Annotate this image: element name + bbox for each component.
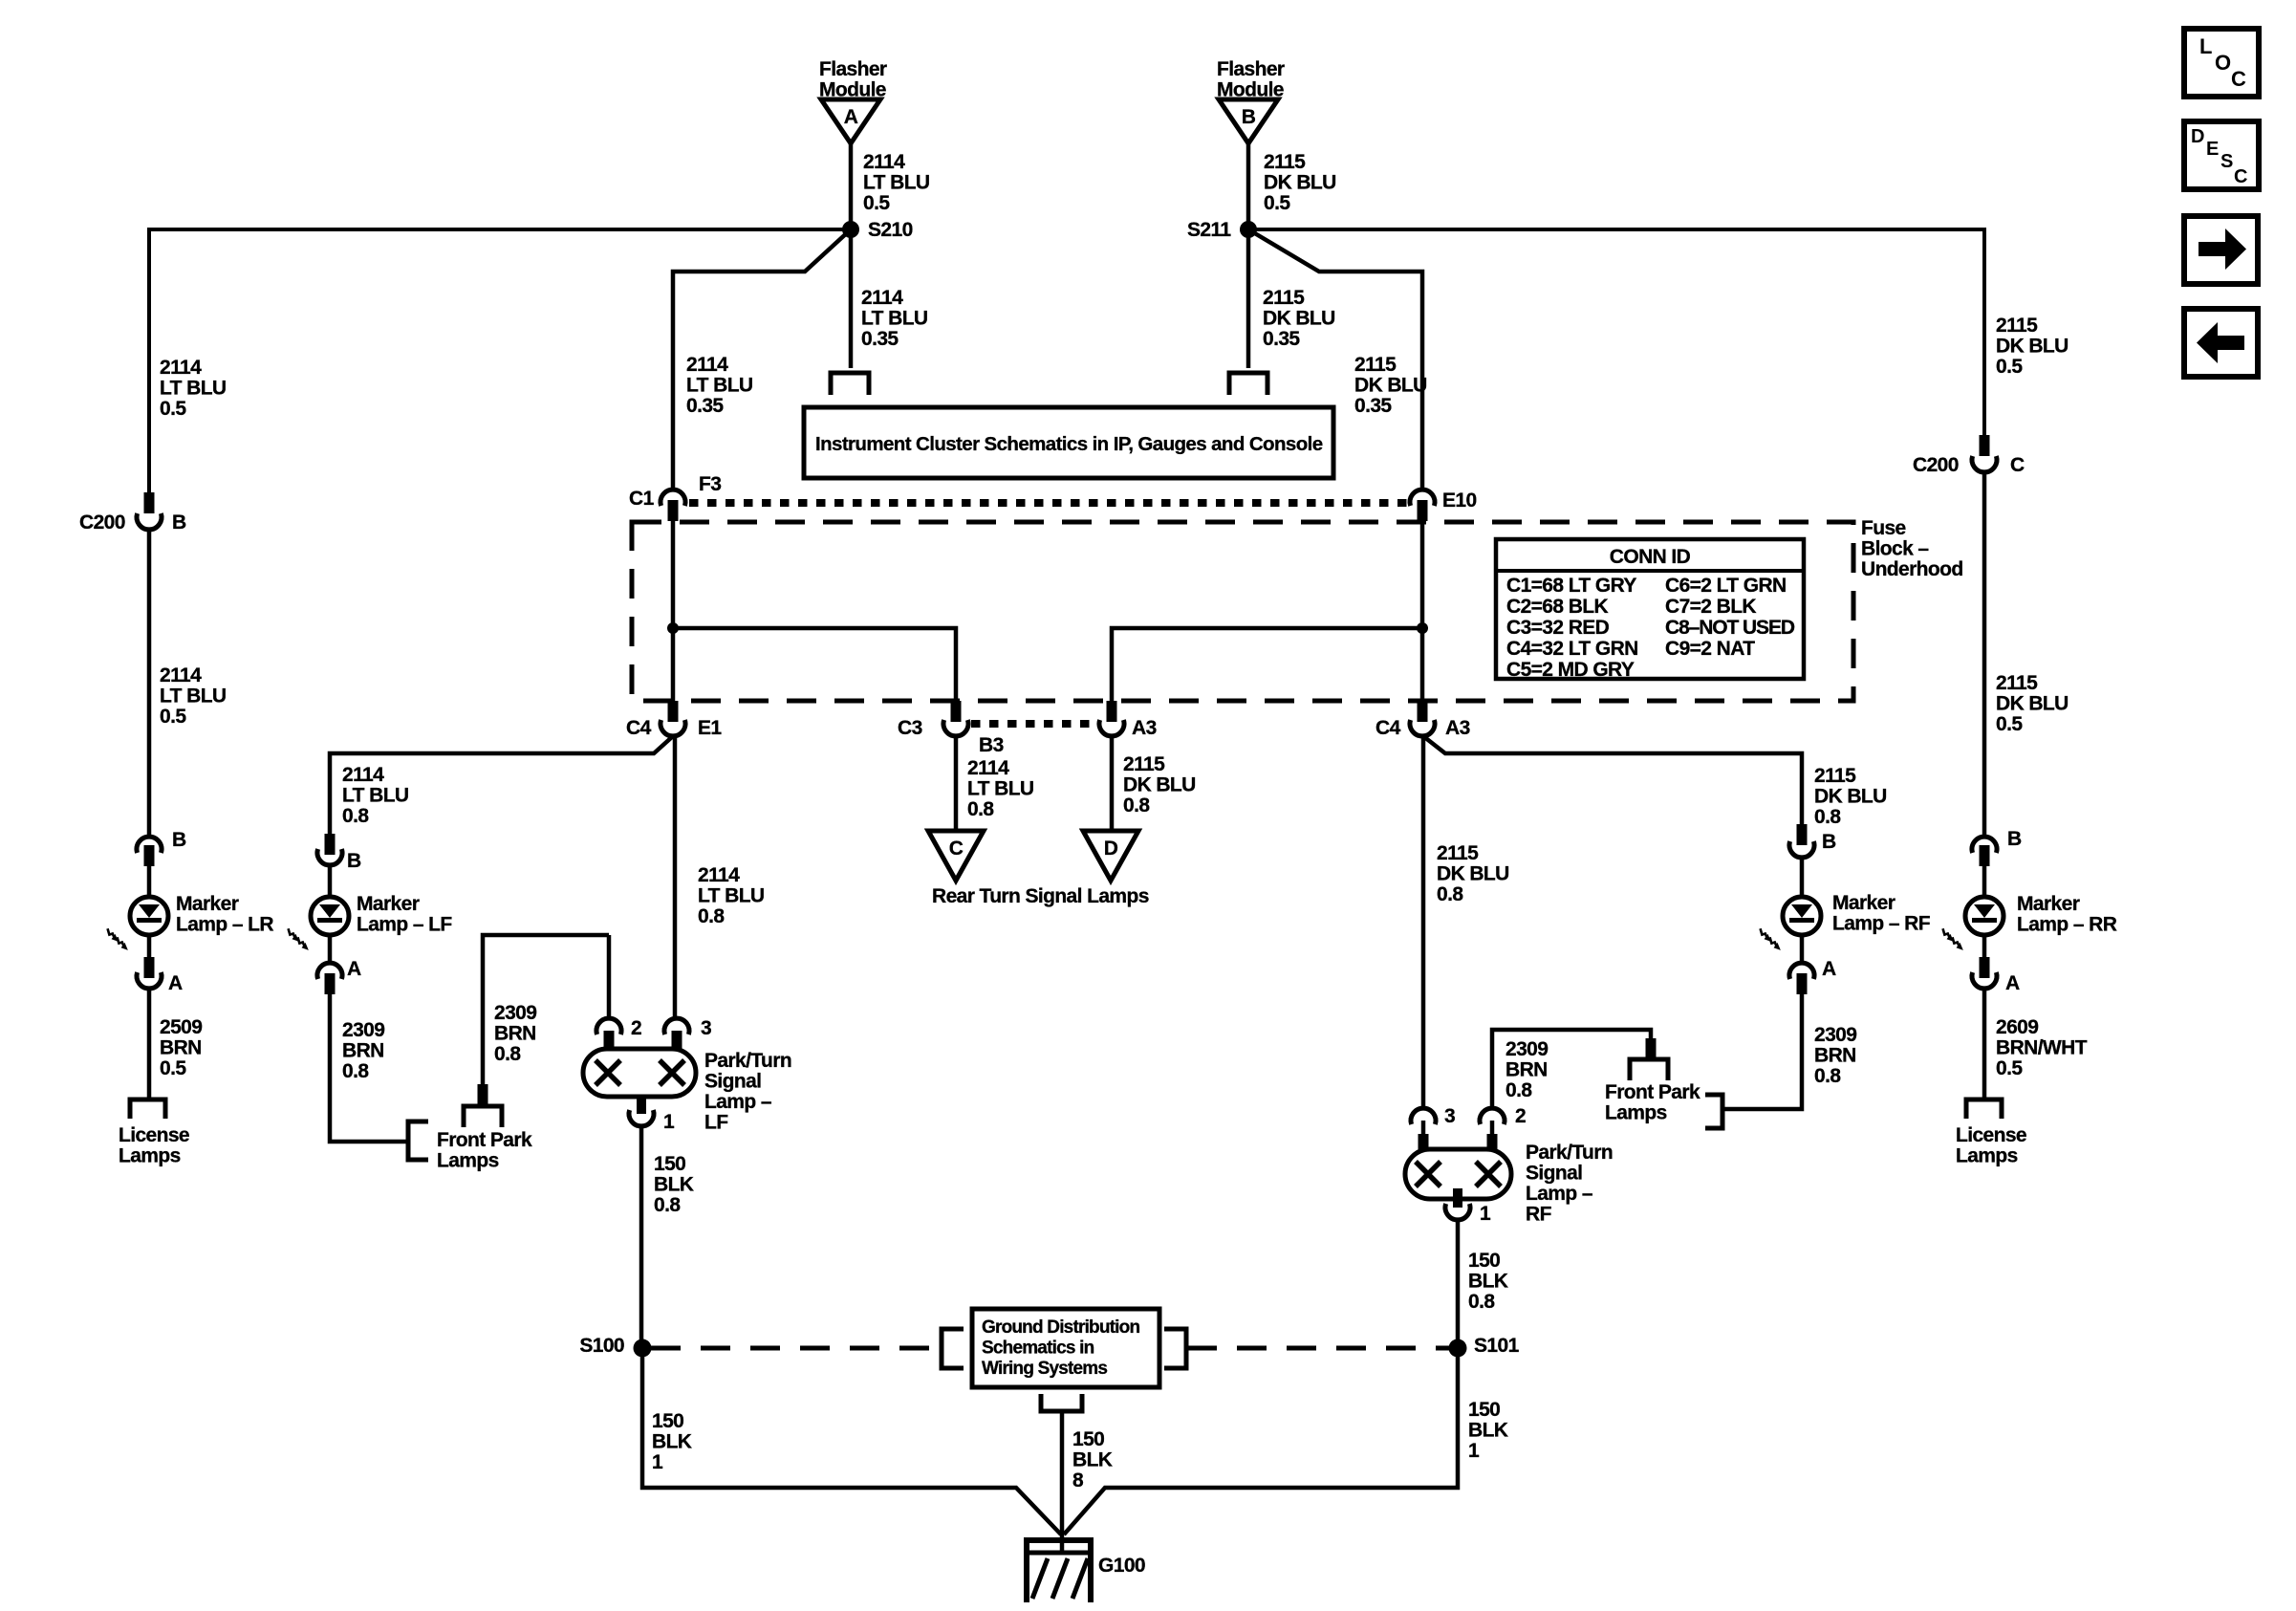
connector C200 pin C socket xyxy=(1972,456,1997,472)
connector marker lamp LR pin A terminal xyxy=(144,957,155,978)
connector marker lamp LR pin A socket xyxy=(137,972,162,989)
svg-text:Lamps: Lamps xyxy=(1605,1102,1667,1124)
svg-text:0.5: 0.5 xyxy=(1996,356,2023,378)
svg-text:BLK: BLK xyxy=(652,1431,692,1453)
svg-text:D: D xyxy=(2191,126,2204,147)
svg-text:0.8: 0.8 xyxy=(654,1194,681,1216)
fuse block - underhood dashed outline xyxy=(632,522,1853,701)
svg-text:1: 1 xyxy=(1468,1440,1480,1462)
svg-text:0.35: 0.35 xyxy=(1263,328,1300,350)
svg-text:LT BLU: LT BLU xyxy=(863,172,930,194)
connector C1 (F3) socket xyxy=(661,490,685,506)
svg-text:Marker: Marker xyxy=(357,893,420,915)
front park lamps top bracket (left) xyxy=(464,1106,502,1127)
connector park/turn RF pin 2 socket xyxy=(1480,1108,1505,1124)
connector marker lamp LR pin B terminal xyxy=(144,845,155,866)
dashed wire S100 to ground distribution xyxy=(651,1346,941,1351)
lamp: Marker Lamp - RR xyxy=(1939,897,2004,952)
svg-text:LT BLU: LT BLU xyxy=(342,785,409,807)
instrument cluster lead bracket (left) xyxy=(831,373,869,395)
svg-text:150: 150 xyxy=(652,1410,683,1432)
dotted harness line B3 to A3 xyxy=(971,720,1096,728)
svg-text:A: A xyxy=(1822,958,1836,980)
svg-text:2309: 2309 xyxy=(342,1019,384,1041)
svg-text:DK BLU: DK BLU xyxy=(1264,172,1336,194)
connector C200 pin B socket xyxy=(137,513,162,530)
svg-text:A: A xyxy=(844,106,858,128)
wire to marker RF xyxy=(1800,858,1805,899)
svg-text:BRN: BRN xyxy=(342,1040,384,1062)
svg-text:S100: S100 xyxy=(579,1335,624,1357)
svg-text:C1: C1 xyxy=(629,488,655,510)
ground distribution bottom bracket xyxy=(1041,1394,1082,1411)
svg-text:DK BLU: DK BLU xyxy=(1996,693,2069,715)
svg-text:Lamp –: Lamp – xyxy=(1526,1183,1593,1205)
fuse block internal wire (right vertical) xyxy=(1420,521,1425,701)
svg-text:2115: 2115 xyxy=(1996,315,2038,337)
wire from marker RF xyxy=(1800,935,1805,964)
wire 2115 DK BLU 0.8 A3 to rear turn triangle D xyxy=(1110,737,1115,831)
svg-text:0.8: 0.8 xyxy=(967,798,994,820)
svg-text:2114: 2114 xyxy=(861,287,903,309)
svg-text:2115: 2115 xyxy=(1123,753,1165,775)
nav icon box DESC xyxy=(2184,121,2259,189)
svg-text:B: B xyxy=(172,829,186,851)
wire 2309 BRN marker RF to front park lamps xyxy=(1724,994,1802,1109)
svg-text:0.35: 0.35 xyxy=(861,328,899,350)
wire 2115 DK BLU from Flasher B through S211 xyxy=(1246,143,1251,368)
svg-text:BLK: BLK xyxy=(1468,1420,1508,1442)
svg-text:B3: B3 xyxy=(979,734,1004,756)
front park lamps terminal (right) xyxy=(1646,1038,1657,1057)
svg-text:2114: 2114 xyxy=(967,757,1009,779)
svg-text:Lamps: Lamps xyxy=(119,1145,181,1167)
wire 150 BLK 1 S100 to G100 xyxy=(642,1348,1061,1535)
nav icon box LOC xyxy=(2184,29,2259,97)
svg-text:C: C xyxy=(949,838,964,860)
svg-text:2309: 2309 xyxy=(1814,1024,1856,1046)
wire 2114 LT BLU 0.35 S210 to C1 xyxy=(673,229,851,490)
svg-text:0.8: 0.8 xyxy=(1505,1079,1532,1101)
instrument cluster lead bracket (right) xyxy=(1229,373,1267,395)
svg-text:RF: RF xyxy=(1526,1204,1552,1226)
svg-text:C8–NOT USED: C8–NOT USED xyxy=(1665,617,1795,639)
connector park/turn RF pin 1 socket xyxy=(1445,1204,1470,1220)
front park lamps terminal (left) xyxy=(478,1084,488,1105)
svg-text:0.8: 0.8 xyxy=(1814,806,1841,828)
wire 2115 DK BLU 0.8 C4/A3 to park/turn RF pin 3 xyxy=(1421,736,1426,1109)
svg-text:1: 1 xyxy=(663,1111,675,1133)
connector park/turn LF pin 2 socket xyxy=(596,1018,621,1034)
svg-text:LT BLU: LT BLU xyxy=(686,375,753,397)
svg-text:2114: 2114 xyxy=(160,357,202,379)
svg-text:2115: 2115 xyxy=(1264,151,1306,173)
svg-text:0.5: 0.5 xyxy=(863,192,890,214)
svg-text:S210: S210 xyxy=(868,219,913,241)
svg-text:0.8: 0.8 xyxy=(342,805,369,827)
connector marker lamp RR pin A socket xyxy=(1972,972,1997,989)
svg-text:BLK: BLK xyxy=(654,1174,694,1196)
license lamps lead bracket (left) xyxy=(130,1099,165,1119)
connector C3/B3 socket xyxy=(943,720,968,736)
wire 2114 LT BLU 0.5 C200 to marker LR xyxy=(147,531,152,838)
fuse block internal wire to C3 xyxy=(673,628,956,701)
svg-text:LT BLU: LT BLU xyxy=(698,885,765,907)
connector E10 terminal xyxy=(1418,500,1428,521)
svg-text:DK BLU: DK BLU xyxy=(1996,336,2069,358)
lamp: Park/Turn Signal Lamp - LF (dual filament bulb) xyxy=(583,1049,696,1097)
svg-text:0.8: 0.8 xyxy=(342,1060,369,1082)
connector A3 terminal xyxy=(1107,701,1117,722)
svg-text:L: L xyxy=(2199,34,2212,58)
svg-text:0.8: 0.8 xyxy=(698,905,725,927)
svg-text:Flasher: Flasher xyxy=(819,58,887,80)
svg-text:C4: C4 xyxy=(1375,717,1401,739)
svg-text:DK BLU: DK BLU xyxy=(1263,308,1335,330)
connector C4/A3 socket xyxy=(1410,720,1435,736)
svg-text:DK BLU: DK BLU xyxy=(1123,774,1196,796)
svg-text:Signal: Signal xyxy=(1526,1163,1582,1185)
license lamps lead bracket (right) xyxy=(1966,1099,2002,1119)
svg-text:Rear Turn Signal Lamps: Rear Turn Signal Lamps xyxy=(932,885,1149,907)
svg-text:B: B xyxy=(1242,106,1256,128)
svg-text:0.5: 0.5 xyxy=(160,1057,186,1079)
connector marker lamp LF pin A terminal xyxy=(325,973,336,994)
nav icon box next (right arrow) xyxy=(2184,216,2258,284)
svg-text:150: 150 xyxy=(1468,1250,1500,1272)
svg-text:2114: 2114 xyxy=(698,864,740,886)
svg-text:A: A xyxy=(168,972,183,994)
svg-text:LT BLU: LT BLU xyxy=(967,778,1034,800)
svg-text:2114: 2114 xyxy=(342,764,384,786)
svg-text:1: 1 xyxy=(1480,1203,1491,1225)
wire 2309 BRN park/turn RF pin 2 to front park lamps xyxy=(1492,1030,1651,1109)
svg-text:BRN: BRN xyxy=(1814,1045,1856,1067)
CONN ID table xyxy=(1496,539,1804,681)
svg-text:Lamp – RR: Lamp – RR xyxy=(2017,914,2117,936)
svg-text:0.8: 0.8 xyxy=(1123,795,1150,816)
svg-text:A3: A3 xyxy=(1445,717,1470,739)
connector marker lamp RF pin B terminal xyxy=(1797,824,1808,845)
connector marker lamp LF pin B terminal xyxy=(325,834,336,855)
svg-text:G100: G100 xyxy=(1098,1555,1145,1577)
svg-text:Underhood: Underhood xyxy=(1861,558,1963,580)
svg-text:Front Park: Front Park xyxy=(437,1129,532,1151)
svg-text:C: C xyxy=(2234,166,2247,187)
connector park/turn RF pin 3 terminal xyxy=(1419,1134,1429,1150)
svg-text:Marker: Marker xyxy=(1832,892,1895,914)
svg-text:C5=2 MD GRY: C5=2 MD GRY xyxy=(1506,659,1635,681)
wire 2114 LT BLU 0.8 C3 to rear turn triangle C xyxy=(954,737,959,831)
wire 2114 LT BLU from Flasher A through S210 xyxy=(849,143,854,368)
splice S101 xyxy=(1449,1339,1467,1358)
svg-text:BRN: BRN xyxy=(160,1037,202,1059)
svg-text:Park/Turn: Park/Turn xyxy=(1526,1142,1613,1164)
dotted harness line C1/F3 to E10 xyxy=(689,499,1407,507)
splice S100 xyxy=(634,1339,652,1358)
wire from marker LR xyxy=(147,935,152,959)
svg-text:LT BLU: LT BLU xyxy=(160,686,227,708)
svg-text:C200: C200 xyxy=(1913,454,1959,476)
svg-text:0.5: 0.5 xyxy=(1264,192,1290,214)
connector C4/E1 socket xyxy=(661,720,685,736)
svg-text:O: O xyxy=(2215,51,2231,75)
flasher module A off-page triangle xyxy=(819,58,887,143)
svg-text:Lamp – LF: Lamp – LF xyxy=(357,914,452,936)
svg-text:2115: 2115 xyxy=(1263,287,1305,309)
svg-text:Front Park: Front Park xyxy=(1605,1081,1700,1103)
svg-text:1: 1 xyxy=(652,1451,663,1473)
svg-text:A: A xyxy=(347,958,361,980)
fuse block junction (left) xyxy=(667,622,679,634)
svg-text:Lamps: Lamps xyxy=(1956,1145,2018,1167)
svg-text:0.8: 0.8 xyxy=(494,1043,521,1065)
connector C200 pin C terminal xyxy=(1980,435,1990,456)
ground distribution bracket (left) xyxy=(942,1329,964,1368)
svg-text:C6=2 LT GRN: C6=2 LT GRN xyxy=(1665,575,1787,597)
wire 150 BLK 8 to G100 xyxy=(1060,1413,1065,1552)
svg-text:B: B xyxy=(1822,831,1836,853)
svg-text:B: B xyxy=(347,850,361,872)
svg-text:Signal: Signal xyxy=(704,1071,761,1093)
svg-text:0.8: 0.8 xyxy=(1468,1291,1495,1313)
svg-text:0.5: 0.5 xyxy=(1996,713,2023,735)
svg-text:2115: 2115 xyxy=(1996,672,2038,694)
flasher module B off-page triangle xyxy=(1217,58,1285,143)
off-page triangle C (rear turn signal) xyxy=(928,831,984,881)
wire 2115 DK BLU 0.35 S211 to E10 xyxy=(1248,229,1422,490)
svg-text:2114: 2114 xyxy=(863,151,905,173)
svg-text:C200: C200 xyxy=(79,512,125,533)
wire 2114 LT BLU 0.8 E1 to park/turn LF pin 3 xyxy=(673,736,675,1019)
svg-text:2115: 2115 xyxy=(1437,842,1479,864)
svg-text:Wiring Systems: Wiring Systems xyxy=(982,1359,1107,1379)
svg-text:S: S xyxy=(2220,151,2233,172)
connector C200 pin B terminal xyxy=(144,492,155,513)
connector E10 socket xyxy=(1410,490,1435,506)
svg-text:Marker: Marker xyxy=(2017,893,2080,915)
connector A3 socket xyxy=(1099,720,1124,736)
svg-text:BLK: BLK xyxy=(1072,1449,1113,1471)
front park lamps top bracket (right) xyxy=(1630,1059,1668,1080)
fuse block internal wire to A3 xyxy=(1112,628,1422,701)
svg-text:C2=68 BLK: C2=68 BLK xyxy=(1506,596,1608,618)
connector marker lamp LR pin B socket xyxy=(137,837,162,853)
svg-text:F3: F3 xyxy=(699,473,721,495)
svg-text:2114: 2114 xyxy=(686,354,728,376)
svg-text:Flasher: Flasher xyxy=(1217,58,1285,80)
svg-text:E10: E10 xyxy=(1442,490,1477,512)
svg-text:License: License xyxy=(119,1124,189,1146)
connector marker lamp RF pin A terminal xyxy=(1797,973,1808,994)
svg-text:DK BLU: DK BLU xyxy=(1437,863,1509,885)
svg-text:LT BLU: LT BLU xyxy=(861,308,928,330)
svg-text:C1=68 LT GRY: C1=68 LT GRY xyxy=(1506,575,1636,597)
svg-text:BRN/WHT: BRN/WHT xyxy=(1996,1037,2088,1059)
svg-text:Instrument Cluster Schematics: Instrument Cluster Schematics in IP, Gau… xyxy=(815,433,1323,455)
svg-text:S101: S101 xyxy=(1474,1335,1520,1357)
svg-text:0.5: 0.5 xyxy=(160,706,186,728)
svg-text:0.35: 0.35 xyxy=(686,395,724,417)
svg-text:BLK: BLK xyxy=(1468,1271,1508,1293)
svg-text:0.5: 0.5 xyxy=(160,398,186,420)
svg-text:Lamp – RF: Lamp – RF xyxy=(1832,913,1931,935)
svg-text:B: B xyxy=(2007,828,2022,850)
svg-text:3: 3 xyxy=(1444,1105,1455,1127)
wire: top-left bus 2114 from S210 to C200 xyxy=(149,229,851,494)
connector C4/A3 terminal xyxy=(1418,701,1428,722)
svg-text:S211: S211 xyxy=(1187,219,1231,241)
connector marker lamp RR pin B socket xyxy=(1972,837,1997,853)
wire to marker RR xyxy=(1982,847,1987,899)
svg-text:Park/Turn: Park/Turn xyxy=(704,1050,791,1072)
wire 2115 DK BLU 0.8 C4/A3 to marker RF xyxy=(1423,736,1802,828)
svg-text:2309: 2309 xyxy=(494,1002,536,1024)
box: Instrument Cluster Schematics in IP, Gauges and Console xyxy=(804,407,1333,478)
svg-text:A3: A3 xyxy=(1132,717,1157,739)
svg-text:License: License xyxy=(1956,1124,2026,1146)
svg-text:2: 2 xyxy=(1515,1105,1526,1127)
svg-text:E1: E1 xyxy=(698,717,722,739)
off-page triangle D (rear turn signal) xyxy=(1083,831,1138,881)
wire 2114 LT BLU 0.8 E1 to marker LF xyxy=(330,736,673,838)
front park lamps side bracket (right) xyxy=(1705,1095,1722,1128)
svg-text:150: 150 xyxy=(654,1153,685,1175)
dashed wire ground distribution to S101 xyxy=(1187,1346,1449,1351)
svg-text:DK BLU: DK BLU xyxy=(1354,375,1427,397)
connector marker lamp RF pin B socket xyxy=(1789,841,1814,858)
svg-text:0.5: 0.5 xyxy=(1996,1057,2023,1079)
svg-text:2115: 2115 xyxy=(1354,354,1397,376)
box: Ground Distribution Schematics in Wiring Systems xyxy=(972,1309,1159,1387)
connector park/turn LF pin 1 terminal xyxy=(637,1095,646,1114)
svg-text:BRN: BRN xyxy=(1505,1059,1548,1081)
svg-text:150: 150 xyxy=(1072,1428,1104,1450)
svg-text:2: 2 xyxy=(631,1017,641,1039)
connector marker lamp RR pin A terminal xyxy=(1980,957,1990,978)
svg-text:C7=2 BLK: C7=2 BLK xyxy=(1665,596,1756,618)
wire 2609 BRN/WHT to license lamps xyxy=(1982,990,1987,1101)
svg-text:DK BLU: DK BLU xyxy=(1814,786,1887,808)
svg-text:BRN: BRN xyxy=(494,1023,536,1045)
svg-text:8: 8 xyxy=(1072,1469,1084,1491)
wire 150 BLK 1 S101 to G100 xyxy=(1064,1348,1458,1535)
lamp: Marker Lamp - LF xyxy=(285,897,349,952)
connector park/turn LF pin 3 terminal xyxy=(672,1031,682,1050)
svg-text:C: C xyxy=(2010,454,2025,476)
wire from marker RR xyxy=(1982,935,1987,959)
lamp: Park/Turn Signal Lamp - RF (dual filament bulb) xyxy=(1405,1149,1511,1199)
wire 2309 BRN park/turn LF pin 2 to front park lamps xyxy=(483,935,609,1086)
svg-text:C3: C3 xyxy=(898,717,922,739)
connector marker lamp LF pin B socket xyxy=(317,849,342,865)
svg-text:Module: Module xyxy=(1217,79,1284,101)
svg-text:2509: 2509 xyxy=(160,1016,202,1038)
svg-text:Ground Distribution: Ground Distribution xyxy=(982,1317,1139,1338)
nav icon box previous (left arrow) xyxy=(2184,309,2258,377)
fuse block junction (right) xyxy=(1417,622,1428,634)
svg-text:2309: 2309 xyxy=(1505,1038,1548,1060)
svg-text:Block –: Block – xyxy=(1861,538,1929,560)
connector marker lamp LF pin A socket xyxy=(317,963,342,979)
connector C3/B3 terminal xyxy=(951,701,962,722)
wire to marker LF xyxy=(328,865,333,899)
wire 2115 DK BLU 0.5 C200 to marker RR xyxy=(1982,473,1987,838)
svg-text:2115: 2115 xyxy=(1814,765,1856,787)
connector C1 (F3) terminal xyxy=(668,500,679,521)
connector park/turn RF pin 2 terminal xyxy=(1487,1134,1498,1150)
wire 2509 BRN to license lamps xyxy=(147,990,152,1101)
svg-text:E: E xyxy=(2206,139,2219,160)
lamp: Marker Lamp - LR xyxy=(104,897,168,952)
wire to marker LR xyxy=(147,847,152,899)
splice S210 xyxy=(842,221,859,238)
wire to park/turn LF pin 2 xyxy=(607,935,612,1019)
svg-text:C9=2 NAT: C9=2 NAT xyxy=(1665,638,1755,660)
svg-text:C4: C4 xyxy=(626,717,652,739)
fuse block internal wire (left vertical) xyxy=(671,521,676,701)
svg-text:C: C xyxy=(2231,67,2246,91)
svg-text:Lamps: Lamps xyxy=(437,1150,499,1172)
wire 150 BLK park/turn RF to S101 xyxy=(1456,1221,1461,1348)
svg-text:Lamp –: Lamp – xyxy=(704,1091,772,1113)
connector park/turn RF pin 3 socket xyxy=(1411,1108,1436,1124)
svg-text:Module: Module xyxy=(819,79,886,101)
connector park/turn RF pin 1 terminal xyxy=(1453,1188,1462,1208)
svg-text:2114: 2114 xyxy=(160,664,202,686)
svg-text:LF: LF xyxy=(704,1112,728,1134)
wire from marker LF xyxy=(328,935,333,964)
wire 150 BLK park/turn LF to S100 xyxy=(639,1127,644,1348)
ground G100 chassis symbol xyxy=(1027,1540,1091,1602)
ground distribution bracket (right) xyxy=(1164,1329,1186,1368)
svg-text:B: B xyxy=(172,512,186,533)
connector park/turn LF pin 1 socket xyxy=(629,1110,654,1126)
svg-text:0.35: 0.35 xyxy=(1354,395,1392,417)
lamp: Marker Lamp - RF xyxy=(1757,897,1821,952)
wire 2309 BRN marker LF to front park lamps xyxy=(330,994,408,1142)
connector marker lamp RR pin B terminal xyxy=(1980,845,1990,866)
connector marker lamp RF pin A socket xyxy=(1789,963,1814,979)
svg-text:0.8: 0.8 xyxy=(1814,1065,1841,1087)
svg-text:Fuse: Fuse xyxy=(1861,517,1906,539)
svg-text:A: A xyxy=(2005,972,2020,994)
svg-text:Marker: Marker xyxy=(176,893,239,915)
svg-text:2609: 2609 xyxy=(1996,1016,2038,1038)
svg-text:CONN ID: CONN ID xyxy=(1610,546,1691,568)
svg-text:0.8: 0.8 xyxy=(1437,883,1463,905)
svg-text:Lamp – LR: Lamp – LR xyxy=(176,914,273,936)
svg-text:150: 150 xyxy=(1468,1399,1500,1421)
svg-text:C3=32 RED: C3=32 RED xyxy=(1506,617,1610,639)
splice S211 xyxy=(1240,221,1257,238)
svg-text:3: 3 xyxy=(701,1017,711,1039)
svg-text:LT BLU: LT BLU xyxy=(160,378,227,400)
front park lamps side bracket (left) xyxy=(408,1121,428,1160)
connector park/turn LF pin 3 socket xyxy=(664,1018,689,1034)
connector park/turn LF pin 2 terminal xyxy=(604,1031,615,1050)
svg-text:C4=32 LT GRN: C4=32 LT GRN xyxy=(1506,638,1638,660)
connector C4/E1 terminal xyxy=(668,701,679,722)
svg-text:Schematics in: Schematics in xyxy=(982,1339,1094,1359)
wire: top-right bus 2115 from S211 to C200-C xyxy=(1248,229,1984,437)
svg-text:D: D xyxy=(1104,838,1118,860)
